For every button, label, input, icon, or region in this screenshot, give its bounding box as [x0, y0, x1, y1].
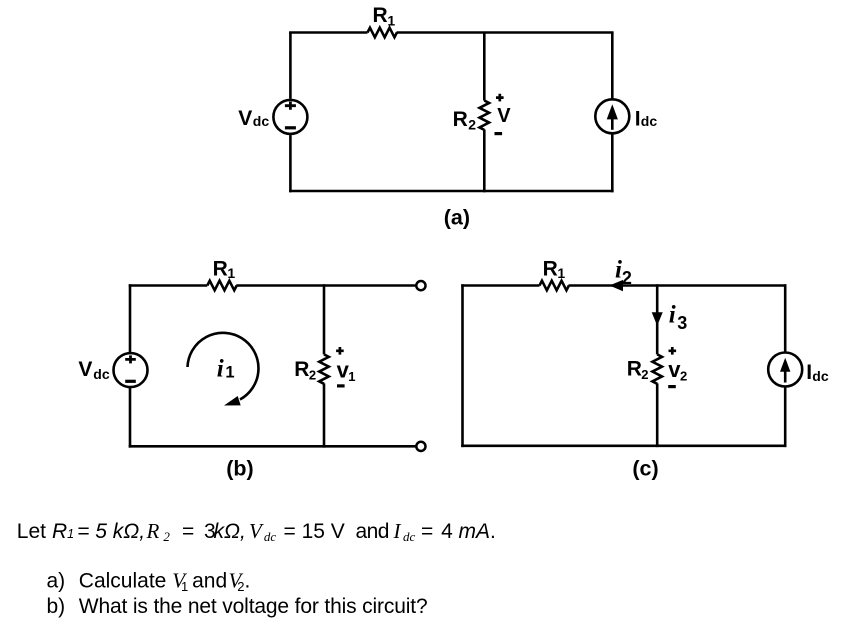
svg-text:2: 2 — [641, 367, 648, 382]
svg-text:2: 2 — [622, 268, 632, 288]
svg-text:kΩ,: kΩ, — [214, 520, 246, 543]
wire: (a) middle branch lower — [483, 130, 486, 193]
svg-text:1: 1 — [557, 265, 565, 281]
wire: (a) right vertical lower — [611, 133, 614, 192]
svg-text:R1= 5 kΩ,: R1= 5 kΩ, — [52, 520, 145, 543]
svg-text:=: = — [182, 520, 194, 543]
svg-text:2: 2 — [680, 369, 687, 384]
wire: (a) bottom horizontal — [289, 190, 613, 193]
wire: (a) middle branch upper — [483, 33, 486, 101]
voltage source Vdc (b) — [114, 353, 148, 387]
svg-text:I: I — [635, 108, 641, 131]
svg-text:I: I — [806, 361, 812, 384]
svg-text:dc: dc — [812, 368, 829, 384]
svg-text:1: 1 — [227, 265, 235, 281]
wire: (c) middle branch upper — [656, 284, 659, 354]
terminal node (b) bottom right — [416, 442, 425, 451]
resistor R1 (a) — [368, 28, 397, 38]
wire: (c) right vertical lower — [784, 387, 787, 448]
wire: (a) left vertical lower — [289, 135, 292, 192]
svg-text:R: R — [213, 257, 228, 280]
svg-text:Vdc: Vdc — [249, 519, 276, 544]
wire: (c) top horizontal left of R1 — [461, 284, 539, 287]
wire: (a) top horizontal left of R1 — [289, 31, 367, 34]
wire: (a) top horizontal right of R1 — [397, 31, 614, 34]
wire: (c) right vertical upper — [784, 284, 787, 352]
wire: (b) top horizontal left of R1 — [129, 284, 208, 287]
svg-text:dc: dc — [253, 113, 270, 129]
svg-text:V: V — [238, 107, 252, 130]
minus sign inside Vdc (a) — [285, 126, 296, 129]
resistor R1 (b) — [207, 281, 236, 291]
svg-text:1: 1 — [387, 12, 395, 28]
wire: (a) right vertical upper — [611, 33, 614, 100]
svg-text:(b): (b) — [226, 456, 253, 480]
svg-text:2: 2 — [468, 116, 476, 132]
svg-text:V: V — [78, 358, 92, 381]
svg-text:1: 1 — [225, 364, 234, 382]
wire: (c) top horizontal right of R1 — [569, 284, 787, 287]
svg-text:a): a) — [47, 570, 66, 593]
plus sign of v1 (b) — [336, 347, 344, 355]
plus sign of V (a) — [496, 94, 504, 102]
wire: (b) bottom horizontal — [129, 445, 416, 448]
svg-text:R: R — [453, 108, 468, 131]
wire: (b) left vertical lower — [129, 388, 132, 448]
svg-text:V: V — [497, 105, 511, 127]
svg-text:i: i — [217, 356, 224, 383]
svg-text:R2: R2 — [146, 519, 171, 544]
minus sign of v1 (b) — [337, 384, 345, 387]
current source Idc (a) — [595, 99, 629, 133]
svg-text:R: R — [543, 257, 558, 280]
svg-text:1: 1 — [348, 369, 355, 384]
wire: (b) middle branch upper — [323, 284, 326, 354]
mesh current loop i1 (b) — [188, 333, 259, 400]
svg-text:dc: dc — [93, 366, 110, 382]
svg-text:i: i — [669, 301, 676, 328]
svg-text:= 4: = 4 — [421, 520, 453, 543]
svg-text:R: R — [627, 358, 642, 381]
current arrow i2 (c) — [609, 280, 623, 291]
arrow inside Idc (a) — [611, 116, 614, 130]
current arrow i3 (c) — [652, 312, 663, 326]
plus sign of v2 (c) — [669, 347, 677, 355]
minus sign of V (a) — [495, 132, 503, 135]
svg-text:b): b) — [47, 595, 66, 618]
svg-text:(a): (a) — [444, 205, 470, 229]
svg-text:2: 2 — [309, 368, 316, 383]
wire: (a) top-left vertical — [289, 33, 292, 99]
wire: (b) middle branch lower — [323, 383, 326, 447]
voltage source Vdc (a) — [273, 100, 307, 134]
svg-text:dc: dc — [641, 113, 658, 129]
wire: (b) top horizontal right of R1 — [236, 284, 415, 287]
svg-text:Calculate V1 and V2.: Calculate V1 and V2. — [79, 569, 251, 594]
minus sign inside Vdc (b) — [125, 380, 136, 383]
resistor R2 (b) — [319, 354, 329, 383]
plus sign inside Vdc (a) — [285, 102, 296, 110]
plus sign inside Vdc (b) — [125, 355, 136, 363]
resistor R2 (a) — [479, 101, 489, 130]
svg-text:Let: Let — [17, 520, 46, 543]
resistor R1 (c) — [540, 281, 569, 291]
svg-text:= 15 V and: = 15 V and — [284, 520, 389, 543]
svg-text:Idc: Idc — [393, 519, 416, 544]
svg-text:3: 3 — [677, 313, 687, 333]
arrow inside Idc (c) — [784, 370, 787, 383]
svg-text:(c): (c) — [632, 456, 658, 480]
current source Idc (c) — [768, 353, 802, 387]
resistor R2 (c) — [652, 354, 662, 383]
wire: (c) bottom horizontal — [461, 444, 786, 447]
svg-text:R: R — [373, 4, 388, 27]
svg-text:What is the net voltage for th: What is the net voltage for this circuit… — [79, 595, 428, 618]
wire: (c) left vertical — [461, 284, 464, 447]
wire: (b) left vertical upper — [129, 284, 132, 352]
svg-text:mA.: mA. — [459, 520, 496, 543]
svg-text:R: R — [294, 358, 309, 381]
wire: (c) middle branch lower — [656, 383, 659, 447]
minus sign of v2 (c) — [668, 385, 676, 388]
terminal node (b) top right — [416, 281, 425, 290]
